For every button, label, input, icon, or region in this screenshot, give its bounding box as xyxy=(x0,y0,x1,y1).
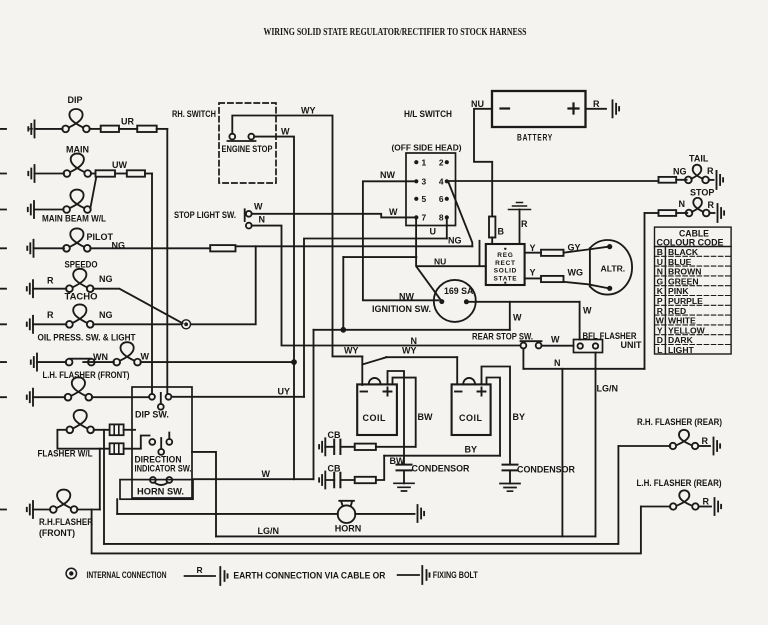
bus1 to R.H. flasher rear xyxy=(104,446,618,544)
svg-text:R: R xyxy=(47,310,54,320)
svg-text:UW: UW xyxy=(112,160,127,170)
svg-text:DIP: DIP xyxy=(68,95,83,105)
svg-text:W: W xyxy=(281,127,290,137)
svg-text:N: N xyxy=(679,199,686,209)
earth (OIL) xyxy=(27,316,33,333)
svg-text:NG: NG xyxy=(99,274,113,284)
wire LG/N from direction sw to flasher line xyxy=(192,452,216,537)
svg-text:3: 3 xyxy=(422,177,427,187)
connector UW 1 xyxy=(96,170,116,176)
earth (DIP) xyxy=(28,120,34,137)
svg-text:G: G xyxy=(656,276,663,286)
dot line horizontal xyxy=(314,329,510,331)
svg-text:FLASHER W/L: FLASHER W/L xyxy=(38,449,93,459)
svg-text:W: W xyxy=(262,469,271,479)
svg-text:NG: NG xyxy=(99,310,113,320)
wire W engine stop to W bus xyxy=(254,137,294,480)
earth (MAIN) xyxy=(28,165,34,182)
svg-text:FIXING BOLT: FIXING BOLT xyxy=(433,570,478,580)
pin 8 xyxy=(445,215,449,219)
wire FLASHER W/L right to upper block connector xyxy=(94,429,110,431)
svg-text:EARTH CONNECTION VIA CABLE OR: EARTH CONNECTION VIA CABLE OR xyxy=(233,571,385,581)
WY drop to coil 2 xyxy=(456,357,458,384)
H/L switch connector box (off side head) xyxy=(406,153,456,226)
svg-text:WHITE: WHITE xyxy=(668,316,696,326)
wire MAIN lamp to connector UW xyxy=(91,173,96,175)
svg-text:B: B xyxy=(498,227,505,237)
engine stop contacts xyxy=(229,134,235,140)
wire DIP lamp to connector UR xyxy=(90,128,101,130)
svg-text:WG: WG xyxy=(568,268,584,278)
legend: fixing bolt xyxy=(398,574,419,576)
battery xyxy=(492,91,586,127)
svg-text:OIL PRESS. SW. & LIGHT: OIL PRESS. SW. & LIGHT xyxy=(38,333,136,343)
earth (LH rear) xyxy=(715,498,722,515)
lamp TACHO (speedo head) xyxy=(66,269,94,292)
svg-text:BLUE: BLUE xyxy=(668,257,692,267)
W bus junction riser (dot line) xyxy=(313,330,315,479)
svg-text:LG/N: LG/N xyxy=(597,384,619,394)
earth (MAIN BEAM) xyxy=(28,201,34,218)
svg-text:TACHO: TACHO xyxy=(65,292,98,302)
svg-text:1: 1 xyxy=(422,158,427,168)
connector UW 2 xyxy=(127,170,145,176)
svg-text:2: 2 xyxy=(439,158,444,168)
wire lower connector net down to bus2 xyxy=(99,449,101,510)
wire N stop light sw down and right to rear stop sw xyxy=(252,226,521,346)
wire UW vertical down to dip switch xyxy=(151,174,153,394)
wire earth-MAIN lamp xyxy=(0,173,64,175)
coil2 + outer elbow to condenser 2 drop xyxy=(482,367,511,484)
svg-text:INDICATOR SW.: INDICATOR SW. xyxy=(135,464,192,474)
svg-text:BY: BY xyxy=(465,445,478,455)
wire W rear stop to BFL xyxy=(542,345,574,347)
lamp MAIN xyxy=(64,154,92,177)
horn switch contacts xyxy=(150,477,156,483)
svg-text:RECT: RECT xyxy=(495,260,516,267)
earth (PILOT) xyxy=(27,240,33,257)
ignition switch 169SA xyxy=(434,280,476,322)
svg-text:R: R xyxy=(521,219,528,229)
svg-text:L.H. FLASHER (REAR): L.H. FLASHER (REAR) xyxy=(637,478,722,488)
connector B xyxy=(489,217,495,238)
wire R earth above regulator xyxy=(519,210,521,245)
svg-text:DIP SW.: DIP SW. xyxy=(135,410,169,420)
wire FLASHER W/L left loop down to lower block connector xyxy=(57,430,109,449)
wire UY from dip switch xyxy=(171,396,304,398)
wire earth-lamp xyxy=(0,396,65,398)
direction indicator switch contacts xyxy=(149,439,155,445)
lamp MAIN BEAM W/L xyxy=(63,190,91,213)
W elbow down to BFL unit xyxy=(579,302,581,340)
svg-text:WY: WY xyxy=(344,346,359,356)
earth (TACHO) xyxy=(27,280,33,297)
svg-text:SOLID: SOLID xyxy=(494,268,517,275)
lamp L.H. FLASHER (REAR) xyxy=(641,506,670,508)
pin 1 xyxy=(414,160,418,164)
svg-text:REG: REG xyxy=(497,252,513,259)
svg-text:PURPLE: PURPLE xyxy=(668,296,703,306)
svg-text:RED: RED xyxy=(668,306,686,316)
lamp STOP xyxy=(686,198,710,217)
svg-text:COLOUR CODE: COLOUR CODE xyxy=(657,238,724,248)
cable colour code table text xyxy=(657,229,724,248)
svg-text:NW: NW xyxy=(380,170,395,180)
svg-text:INTERNAL CONNECTION: INTERNAL CONNECTION xyxy=(87,570,167,580)
svg-text:IGNITION SW.: IGNITION SW. xyxy=(372,304,431,314)
svg-text:HORN: HORN xyxy=(335,524,362,534)
svg-text:R: R xyxy=(702,436,709,446)
wire upper connector net down to bus1 xyxy=(103,430,105,544)
NU link to regulator xyxy=(416,241,485,266)
earth (condenser1) xyxy=(394,483,414,491)
wire PILOT lamp to NG connector xyxy=(90,247,210,249)
cable colour code table xyxy=(655,227,732,354)
wire earth-DIP lamp xyxy=(0,128,63,130)
svg-text:P: P xyxy=(657,296,663,306)
CB row 1 xyxy=(319,438,325,455)
wire NG line to pin4 riser xyxy=(236,245,473,247)
svg-text:R: R xyxy=(707,166,714,176)
svg-text:YELLOW: YELLOW xyxy=(668,325,706,335)
svg-text:W: W xyxy=(513,313,522,323)
wire WG to alternator xyxy=(564,282,608,288)
svg-text:R: R xyxy=(703,497,710,507)
lamp OIL PRESS xyxy=(66,304,94,327)
svg-text:NG: NG xyxy=(448,236,462,246)
coil1 + elbow to BW drop xyxy=(393,378,416,447)
svg-text:GREEN: GREEN xyxy=(668,276,699,286)
svg-text:REAR STOP SW.: REAR STOP SW. xyxy=(472,332,533,342)
svg-text:BROWN: BROWN xyxy=(668,267,701,277)
horn line xyxy=(117,513,338,515)
svg-text:TAIL: TAIL xyxy=(689,154,709,164)
diagonal MAIN BEAM lamp up to UW net xyxy=(90,177,96,209)
svg-text:5: 5 xyxy=(422,194,427,204)
svg-text:N: N xyxy=(554,358,561,368)
svg-text:NU: NU xyxy=(471,99,484,109)
horn switch sub-box xyxy=(120,480,193,500)
svg-text:N: N xyxy=(411,336,418,346)
lamp TAIL xyxy=(685,165,709,184)
LG/N line to rear flasher feed xyxy=(216,535,595,537)
svg-text:BY: BY xyxy=(513,412,526,422)
legend: earth via cable xyxy=(185,575,215,577)
svg-text:W: W xyxy=(551,335,560,345)
svg-text:LG/N: LG/N xyxy=(258,526,280,536)
svg-text:NG: NG xyxy=(673,167,687,177)
wire horn to earth xyxy=(355,513,414,515)
wire earth-RHF lamp xyxy=(0,509,50,511)
pin 4 wire to tail lamp xyxy=(449,180,659,182)
wire W stop light sw to pin 7 xyxy=(252,214,414,218)
earth (RH rear) xyxy=(714,438,721,455)
svg-text:W: W xyxy=(583,306,592,316)
N drop to LG/N line xyxy=(561,369,563,537)
svg-text:CB: CB xyxy=(328,464,341,474)
svg-text:WN: WN xyxy=(93,352,108,362)
svg-text:BATTERY: BATTERY xyxy=(517,133,553,143)
svg-text:UNIT: UNIT xyxy=(621,340,642,350)
junction dot NU riser xyxy=(340,327,346,333)
coil 2 xyxy=(452,384,491,435)
svg-text:MAIN: MAIN xyxy=(66,145,89,155)
earth (horn) xyxy=(418,505,425,522)
dashed box R.H. switch xyxy=(219,103,276,183)
svg-text:U: U xyxy=(657,257,663,267)
svg-text:169 SA: 169 SA xyxy=(444,286,474,296)
svg-text:WY: WY xyxy=(402,346,417,356)
svg-text:BLACK: BLACK xyxy=(668,247,699,257)
svg-text:W: W xyxy=(656,316,665,326)
svg-text:GY: GY xyxy=(568,243,581,253)
stop light switch xyxy=(246,211,252,217)
regulator box REG RECT SOLID STATE xyxy=(486,244,525,285)
svg-text:(FRONT): (FRONT) xyxy=(39,528,75,538)
wire earth-PILOT lamp xyxy=(0,247,64,249)
wire UR vertical down to dip switch xyxy=(166,129,168,394)
U bridge pins 7-8 xyxy=(446,220,448,239)
svg-text:MAIN BEAM W/L: MAIN BEAM W/L xyxy=(42,214,106,224)
title xyxy=(264,27,527,38)
svg-text:PILOT: PILOT xyxy=(87,232,114,242)
NU horizontal xyxy=(343,256,416,258)
svg-text:UY: UY xyxy=(278,387,291,397)
svg-text:NW: NW xyxy=(399,292,414,302)
tail lamp feed connector xyxy=(659,177,677,183)
earth (condenser2) xyxy=(500,484,520,492)
BY long wire xyxy=(384,455,500,457)
pin 7 xyxy=(414,215,418,219)
legend: internal connection xyxy=(66,568,76,578)
wire LHF lamp W to W bus xyxy=(141,361,294,363)
svg-text:W: W xyxy=(389,207,398,217)
wire W from switch box to W bus xyxy=(193,478,314,480)
WY diagonal to coil 1 xyxy=(362,356,386,385)
stop lamp feed connector xyxy=(645,212,659,214)
NU corner to ignition diagonal xyxy=(416,220,442,302)
switch L.H. flasher xyxy=(66,359,95,366)
svg-text:R.H.FLASHER: R.H.FLASHER xyxy=(39,517,93,527)
svg-text:CONDENSOR: CONDENSOR xyxy=(517,465,575,475)
svg-text:Y: Y xyxy=(657,325,663,335)
block connector lower xyxy=(110,443,124,454)
svg-text:L: L xyxy=(657,345,662,355)
svg-text:CONDENSOR: CONDENSOR xyxy=(412,464,470,474)
wire earth-OIL lamp xyxy=(0,323,66,325)
svg-text:6: 6 xyxy=(439,194,444,204)
pin 5 xyxy=(414,197,418,201)
wire lower connector into switch box xyxy=(124,448,141,450)
svg-text:N: N xyxy=(657,267,663,277)
UY riser and top run xyxy=(304,239,447,397)
W tee down to dot line xyxy=(509,302,511,330)
svg-text:N: N xyxy=(259,215,266,225)
wire battery + to earth xyxy=(586,108,607,110)
pin numbers xyxy=(422,158,444,223)
earth (tail) xyxy=(717,171,724,189)
pin 6 xyxy=(445,197,449,201)
svg-text:R.H. FLASHER (REAR): R.H. FLASHER (REAR) xyxy=(637,417,722,427)
svg-text:W: W xyxy=(254,202,263,212)
connector UR 1 xyxy=(101,126,119,132)
wire lamp to dip sw left contact xyxy=(92,396,149,398)
pin 2 xyxy=(445,160,449,164)
svg-text:Y: Y xyxy=(530,243,536,253)
svg-text:SPEEDO: SPEEDO xyxy=(65,260,98,270)
wire earth-MAIN BEAM lamp xyxy=(0,209,64,211)
rear stop switch xyxy=(521,343,527,349)
svg-text:WY: WY xyxy=(301,106,316,116)
svg-text:W: W xyxy=(141,352,150,362)
wire upper connector into switch box xyxy=(124,429,135,431)
svg-text:PINK: PINK xyxy=(668,286,689,296)
CB row 2 xyxy=(319,472,325,489)
wire OIL lamp to internal connection dot xyxy=(93,323,181,325)
wire UR to vertical xyxy=(157,128,168,130)
wire horn box down to horn line xyxy=(116,499,118,514)
lamp L.H. FLASHER (FRONT) xyxy=(113,342,141,365)
svg-text:R: R xyxy=(657,306,664,316)
svg-text:LIGHT: LIGHT xyxy=(668,345,695,355)
connector NG xyxy=(210,245,235,251)
lamp headlamp pilot w/l (row to dip switch) xyxy=(65,377,93,400)
earth (stop) xyxy=(718,204,725,222)
svg-text:CB: CB xyxy=(328,430,341,440)
junction dot W bus / LHF xyxy=(291,359,297,365)
NU riser xyxy=(342,257,344,330)
bus2 to L.H. flasher rear xyxy=(92,507,641,554)
svg-text:UR: UR xyxy=(121,117,134,127)
earth (row397) xyxy=(27,389,33,406)
svg-text:H/L SWITCH: H/L SWITCH xyxy=(404,109,452,119)
earth (LHF) xyxy=(31,354,37,371)
rear stop sw left contact drop to N loop xyxy=(522,348,524,368)
wire earth-LHF switch xyxy=(0,361,66,363)
wire UW to vertical xyxy=(145,173,152,175)
internal connection dot xyxy=(182,320,191,329)
wire xyxy=(119,128,137,130)
condenser 1 drop xyxy=(388,371,405,483)
legend text xyxy=(87,565,479,581)
svg-text:R: R xyxy=(593,99,600,109)
wire battery - NU down to regulator B xyxy=(474,109,492,244)
lamp DIP xyxy=(62,109,90,132)
svg-text:RH. SWITCH: RH. SWITCH xyxy=(172,109,216,119)
BFL flasher unit xyxy=(574,340,603,353)
dip switch contacts xyxy=(149,394,155,400)
pin 4 xyxy=(445,179,449,183)
N riser to stop lamp xyxy=(644,213,646,369)
svg-text:COIL: COIL xyxy=(363,413,387,423)
svg-text:STOP LIGHT SW.: STOP LIGHT SW. xyxy=(174,210,236,220)
wire TACHO NG with diagonal to internal connection xyxy=(93,289,182,324)
coil2 inner elbow BY drop xyxy=(487,378,501,456)
svg-text:R: R xyxy=(47,276,54,286)
svg-text:L.H. FLASHER (FRONT): L.H. FLASHER (FRONT) xyxy=(43,370,130,380)
svg-text:DARK: DARK xyxy=(668,335,694,345)
svg-text:STOP: STOP xyxy=(690,188,714,198)
alternator ALTR xyxy=(590,240,632,295)
svg-text:K: K xyxy=(657,286,664,296)
WY line to coils xyxy=(333,355,458,358)
svg-text:B: B xyxy=(657,247,663,257)
wire xyxy=(115,173,127,175)
wire earth-TACHO lamp xyxy=(0,288,66,290)
wire Y lower to connector xyxy=(525,277,541,279)
lamp FLASHER W/L xyxy=(66,410,94,433)
wire ignition W right xyxy=(469,301,580,303)
coil 1 xyxy=(357,384,397,435)
wire WN switch to lamp xyxy=(83,361,114,363)
lamp R.H. FLASHER (FRONT) xyxy=(50,490,77,513)
svg-text:HORN SW.: HORN SW. xyxy=(137,487,184,497)
wire WY engine stop up and right xyxy=(232,116,332,356)
svg-text:Y: Y xyxy=(530,268,536,278)
earth (regulator R) xyxy=(509,203,531,210)
pin 3 xyxy=(414,179,418,183)
svg-text:COIL: COIL xyxy=(459,413,483,423)
svg-text:BW: BW xyxy=(418,412,433,422)
pin 4 diagonal to NG riser xyxy=(449,183,473,247)
svg-text:BW: BW xyxy=(390,456,405,466)
earth (battery) xyxy=(613,100,620,117)
svg-text:4: 4 xyxy=(439,177,444,187)
svg-text:STATE: STATE xyxy=(493,275,517,282)
N loop from BFL xyxy=(595,353,597,537)
svg-text:NU: NU xyxy=(434,257,446,267)
svg-text:ALTR.: ALTR. xyxy=(601,264,626,274)
wire RHF lamp to bus2 riser xyxy=(77,509,100,511)
svg-text:8: 8 xyxy=(439,213,444,223)
svg-text:7: 7 xyxy=(422,213,427,223)
wire internal connection to NG riser xyxy=(191,246,256,324)
lamp PILOT xyxy=(63,228,91,251)
connector UR 2 xyxy=(137,126,157,132)
earth (RHF front) xyxy=(27,501,33,518)
svg-text:(OFF SIDE HEAD): (OFF SIDE HEAD) xyxy=(392,143,462,153)
wire Y upper to connector xyxy=(525,252,541,254)
svg-text:ENGINE STOP: ENGINE STOP xyxy=(222,144,273,154)
svg-text:D: D xyxy=(657,335,663,345)
svg-text:R: R xyxy=(708,200,715,210)
handlebar switch box xyxy=(132,387,192,498)
lamp R.H. FLASHER (REAR) xyxy=(618,445,670,447)
wire GY to alternator xyxy=(564,247,608,253)
horn xyxy=(338,505,356,523)
svg-text:WIRING SOLID STATE REGULATOR/R: WIRING SOLID STATE REGULATOR/RECTIFIER T… xyxy=(264,27,527,38)
block connector upper xyxy=(110,424,124,435)
svg-text:U: U xyxy=(430,227,437,237)
svg-text:NG: NG xyxy=(112,241,126,251)
svg-text:R: R xyxy=(197,565,203,575)
NW riser pin3 to ignition xyxy=(363,181,439,300)
